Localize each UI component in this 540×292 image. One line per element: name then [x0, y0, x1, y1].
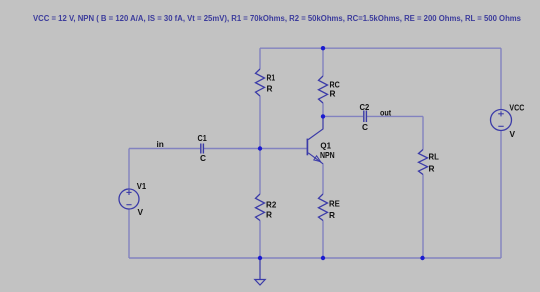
resistor R2	[256, 194, 265, 221]
wire base	[260, 148, 307, 150]
svg-text:R1: R1	[267, 73, 276, 83]
junction node dot on top rail	[321, 46, 325, 50]
junction node dot at ground node	[258, 256, 262, 260]
wire R2 branch bottom	[259, 221, 261, 259]
svg-text:R: R	[266, 210, 272, 220]
wire R2 branch top	[259, 149, 261, 195]
voltage source VCC	[491, 110, 512, 131]
wire input to C1	[129, 148, 200, 150]
wire RL branch top	[422, 116, 424, 149]
voltage source V1	[119, 189, 139, 209]
capacitor C1	[201, 144, 204, 154]
transistor Q1	[307, 116, 323, 163]
svg-text:V: V	[138, 207, 144, 217]
junction node dot at base node	[258, 146, 262, 150]
svg-text:C: C	[200, 153, 206, 163]
wire right rail upper	[500, 48, 502, 110]
wire V1 branch lower	[128, 209, 130, 259]
wire R1 branch top	[259, 48, 261, 69]
wire RC branch bottom	[322, 103, 324, 116]
wire top rail	[260, 47, 501, 49]
svg-text:VCC: VCC	[509, 102, 524, 112]
junction node dot at collector node	[321, 114, 325, 118]
wire R1 branch bottom	[259, 96, 261, 149]
wire bottom rail	[129, 257, 501, 259]
wire emitter branch	[322, 164, 324, 195]
resistor RC	[319, 76, 328, 103]
wire RE branch bottom	[322, 221, 324, 259]
svg-text:V1: V1	[137, 181, 147, 191]
svg-text:R: R	[329, 210, 335, 220]
wire RC branch top	[322, 48, 324, 76]
wire right rail lower	[500, 131, 502, 259]
svg-text:C1: C1	[198, 133, 208, 143]
svg-text:out: out	[380, 108, 391, 118]
wire C1 to base node	[204, 148, 260, 150]
svg-text:Q1: Q1	[320, 140, 331, 150]
resistor RE	[319, 194, 328, 221]
wire C2 to RL corner	[367, 115, 423, 117]
svg-text:NPN: NPN	[320, 150, 335, 160]
junction node dot at RE bottom	[321, 256, 325, 260]
svg-text:RE: RE	[329, 199, 340, 209]
ground	[255, 258, 265, 285]
svg-text:R2: R2	[266, 200, 277, 210]
svg-text:C: C	[362, 122, 368, 132]
junction node dot at RL bottom	[420, 256, 424, 260]
resistor R1	[256, 69, 265, 96]
svg-text:in: in	[157, 139, 164, 149]
wire collector node to C2	[323, 115, 363, 117]
svg-text:VCC = 12 V, NPN ( B = 120 A/A,: VCC = 12 V, NPN ( B = 120 A/A, IS = 30 f…	[33, 13, 521, 23]
svg-text:R: R	[429, 164, 435, 174]
wire V1 branch upper	[128, 149, 130, 190]
wire RL branch bottom	[422, 175, 424, 259]
svg-text:R: R	[330, 89, 336, 99]
svg-text:RL: RL	[429, 152, 439, 162]
svg-text:V: V	[510, 129, 516, 139]
svg-text:R: R	[267, 84, 273, 94]
capacitor C2	[364, 111, 367, 123]
resistor RL	[419, 150, 428, 175]
svg-text:C2: C2	[360, 102, 370, 112]
